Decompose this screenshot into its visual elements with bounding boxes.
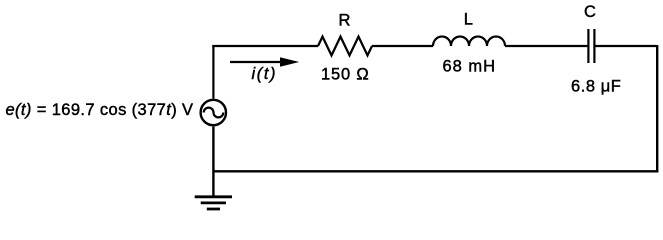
wire capacitor to right corner xyxy=(595,45,656,47)
svg-text:150 Ω: 150 Ω xyxy=(321,66,369,84)
ac source V1 sine symbol xyxy=(204,108,224,118)
svg-text:68 mH: 68 mH xyxy=(443,58,497,76)
capacitor C1 left plate xyxy=(587,29,589,63)
capacitor C1 right plate xyxy=(593,29,595,63)
inductor L1 humps xyxy=(433,37,505,47)
wire circle bottom to ground xyxy=(212,127,214,197)
wire right vertical xyxy=(656,45,658,172)
svg-text:C: C xyxy=(584,3,596,21)
svg-text:L: L xyxy=(464,11,473,29)
ground xyxy=(195,197,232,209)
svg-text:e(t) = 169.7 cos (377t) V: e(t) = 169.7 cos (377t) V xyxy=(6,101,194,119)
ac source V1 circle xyxy=(201,100,226,125)
svg-text:R: R xyxy=(338,11,350,29)
wire resistor to inductor xyxy=(372,45,433,47)
svg-text:i(t): i(t) xyxy=(252,65,278,83)
current arrow i(t) xyxy=(230,57,299,67)
wire left vertical (top) xyxy=(212,45,214,99)
resistor R1 zigzag xyxy=(318,37,372,56)
svg-text:6.8 μF: 6.8 μF xyxy=(571,78,621,96)
wire bottom horizontal xyxy=(213,170,658,172)
wire top-left horizontal xyxy=(212,45,318,47)
wire inductor to capacitor xyxy=(505,45,587,47)
